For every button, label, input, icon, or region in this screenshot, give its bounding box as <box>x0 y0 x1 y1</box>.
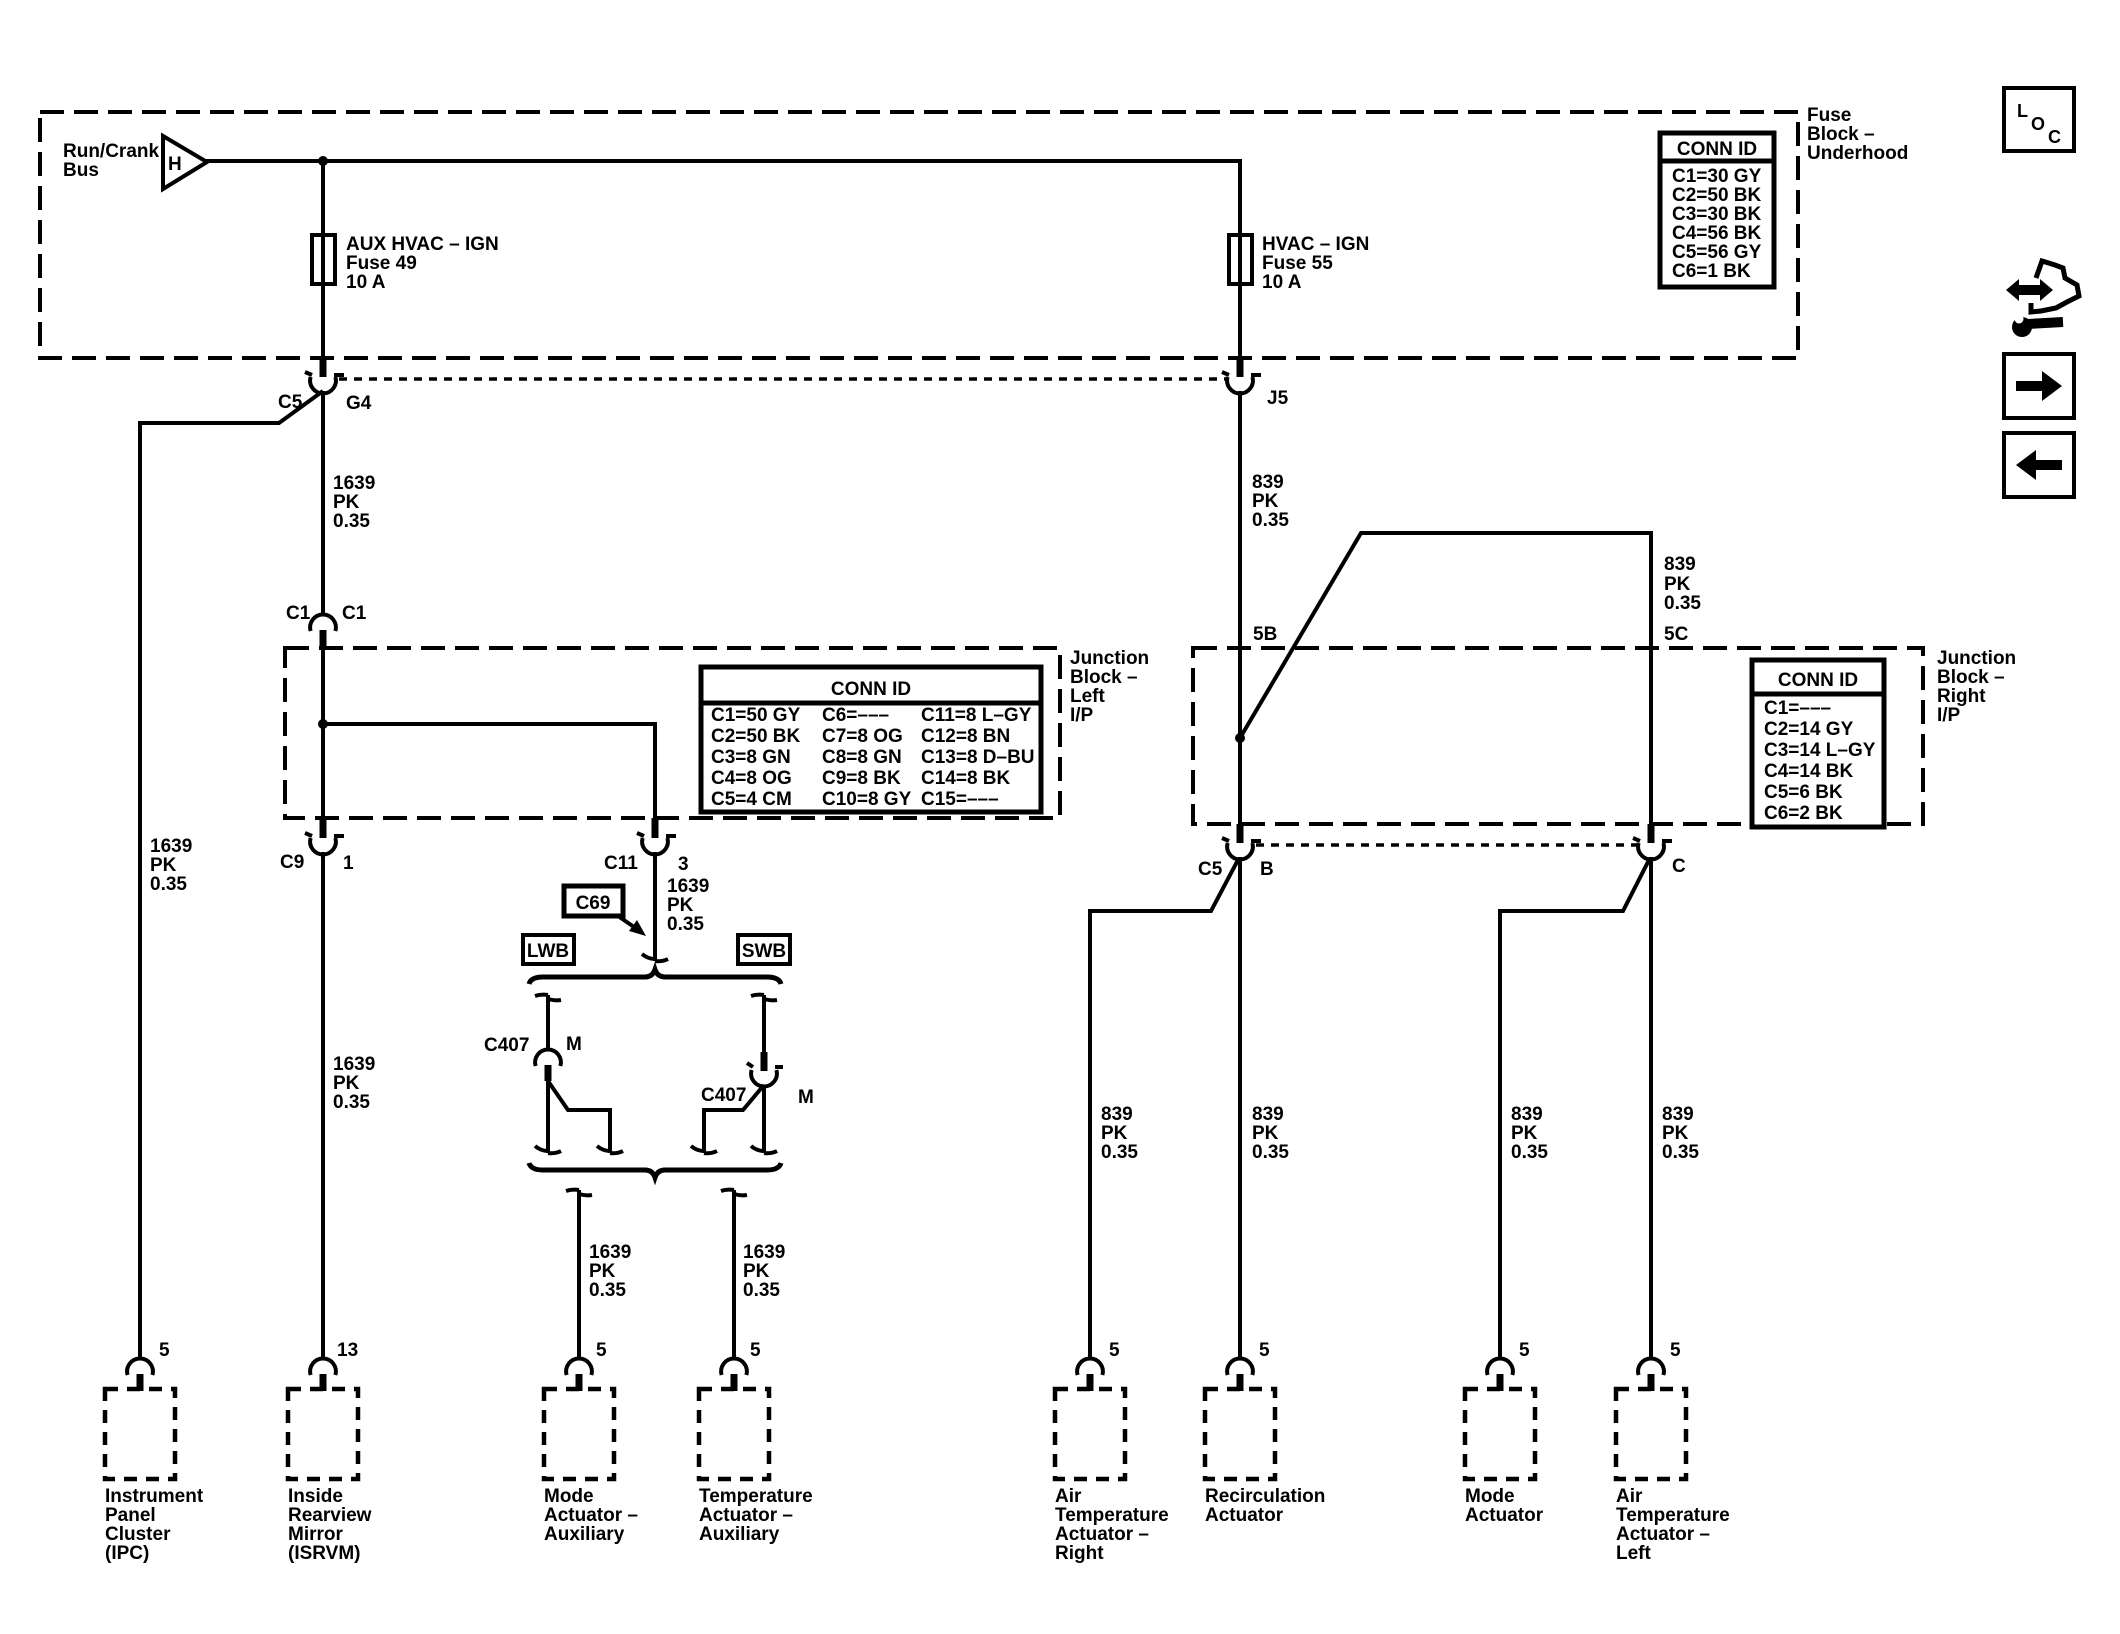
brace top (LWB/SWB split) <box>529 970 781 985</box>
wire end hooks above bottom brace (left pair) <box>535 1146 561 1153</box>
wire C5 to C1 <box>321 391 325 616</box>
inside rearview mirror ISRVM box <box>288 1340 372 1564</box>
svg-text:1639: 1639 <box>667 876 709 897</box>
svg-text:Mode: Mode <box>1465 1486 1515 1507</box>
svg-text:839: 839 <box>1511 1104 1543 1125</box>
temperature actuator auxiliary box <box>699 1340 813 1545</box>
svg-text:H: H <box>168 154 182 175</box>
svg-text:C6=1 BK: C6=1 BK <box>1672 261 1751 282</box>
svg-text:Recirculation: Recirculation <box>1205 1486 1325 1507</box>
svg-text:Bus: Bus <box>63 160 99 181</box>
junction block right label <box>1937 648 2016 726</box>
svg-text:C3=30 BK: C3=30 BK <box>1672 204 1762 225</box>
power trigger triangle H <box>163 136 207 189</box>
svg-text:C4=8 OG: C4=8 OG <box>711 768 792 789</box>
svg-text:PK: PK <box>333 1073 360 1094</box>
svg-text:Junction: Junction <box>1070 648 1149 669</box>
svg-text:839: 839 <box>1664 554 1696 575</box>
svg-text:C5=4 CM: C5=4 CM <box>711 789 792 810</box>
svg-text:C9: C9 <box>280 852 304 873</box>
svg-text:5: 5 <box>1519 1340 1530 1361</box>
svg-text:PK: PK <box>1252 491 1279 512</box>
svg-text:CONN ID: CONN ID <box>1677 139 1757 160</box>
svg-text:5: 5 <box>596 1340 607 1361</box>
wire end hook above brace <box>642 954 668 961</box>
wire label 1639 PK 0.35 (C11 wire) <box>667 876 709 935</box>
svg-text:0.35: 0.35 <box>589 1280 626 1301</box>
svg-text:C6=2 BK: C6=2 BK <box>1764 803 1843 824</box>
svg-text:C7=8 OG: C7=8 OG <box>822 726 903 747</box>
wire label 839 PK 0.35 (J5 wire) <box>1252 472 1289 531</box>
svg-text:10 A: 10 A <box>346 272 386 293</box>
branch wire to C11 <box>323 724 655 818</box>
svg-text:C5=56 GY: C5=56 GY <box>1672 242 1762 263</box>
branch wire B to air temperature actuator right <box>1090 858 1239 1359</box>
svg-text:Fuse 49: Fuse 49 <box>346 253 417 274</box>
svg-text:C4=14 BK: C4=14 BK <box>1764 761 1854 782</box>
svg-text:Actuator –: Actuator – <box>1055 1524 1149 1545</box>
svg-text:C: C <box>1672 856 1686 877</box>
svg-text:M: M <box>798 1087 814 1108</box>
svg-text:B: B <box>1260 859 1274 880</box>
wire label 1639 PK 0.35 (C9 wire) <box>333 1054 375 1113</box>
svg-text:C13=8 D–BU: C13=8 D–BU <box>921 747 1035 768</box>
dotted connector line below fuse block left <box>339 377 1227 381</box>
svg-text:Actuator: Actuator <box>1205 1505 1284 1526</box>
wire label 1639 PK 0.35 (mode aux) <box>589 1242 631 1301</box>
back arrow box <box>2004 433 2074 497</box>
connector C407 right <box>747 1052 783 1086</box>
svg-text:C15=–––: C15=––– <box>921 789 999 810</box>
wire label 1639 PK 0.35 (temp aux) <box>743 1242 785 1301</box>
svg-text:1639: 1639 <box>589 1242 631 1263</box>
svg-text:I/P: I/P <box>1070 705 1094 726</box>
svg-text:Temperature: Temperature <box>1055 1505 1169 1526</box>
connector C407 left <box>535 1050 561 1081</box>
service tool icon (arrow and wrench) <box>2006 261 2079 337</box>
connector C5/G4 <box>305 358 344 393</box>
svg-text:10 A: 10 A <box>1262 272 1302 293</box>
svg-text:C8=8 GN: C8=8 GN <box>822 747 902 768</box>
brace bottom <box>529 1163 781 1178</box>
air temperature actuator left box <box>1616 1340 1730 1564</box>
svg-text:O: O <box>2031 114 2045 134</box>
svg-text:PK: PK <box>667 895 694 916</box>
junction block left label <box>1070 648 1149 726</box>
junction node in junction block left <box>318 719 328 729</box>
svg-text:Left: Left <box>1070 686 1106 707</box>
svg-text:Actuator –: Actuator – <box>699 1505 793 1526</box>
wire label 1639 PK 0.35 (IPC wire) <box>150 836 192 895</box>
junction node at fuse 49 tap <box>318 156 328 166</box>
C69 callout box <box>564 886 623 916</box>
svg-text:Mirror: Mirror <box>288 1524 344 1545</box>
svg-text:1639: 1639 <box>333 1054 375 1075</box>
left C407 motor wires <box>546 1081 550 1153</box>
svg-text:1639: 1639 <box>743 1242 785 1263</box>
wire label 839 PK 0.35 (recirculation) <box>1252 1104 1289 1163</box>
SWB branch wire with top hook <box>751 995 777 1001</box>
svg-text:PK: PK <box>589 1261 616 1282</box>
C69 arrow <box>618 916 634 927</box>
svg-text:839: 839 <box>1662 1104 1694 1125</box>
junction block right dashed box <box>1193 648 1923 824</box>
CONN ID table fuse block <box>1660 133 1774 287</box>
wire label 839 PK 0.35 (air temp right) <box>1101 1104 1138 1163</box>
svg-text:0.35: 0.35 <box>667 914 704 935</box>
svg-text:0.35: 0.35 <box>1664 593 1701 614</box>
right C407 motor wires <box>762 1085 766 1153</box>
wire C11 down to splice brace <box>653 852 657 961</box>
branch wire C to mode actuator <box>1500 858 1650 1359</box>
LWB box <box>523 935 574 964</box>
svg-text:Junction: Junction <box>1937 648 2016 669</box>
svg-text:J5: J5 <box>1267 388 1289 409</box>
svg-text:M: M <box>566 1034 582 1055</box>
svg-text:1639: 1639 <box>333 473 375 494</box>
svg-text:PK: PK <box>1664 574 1691 595</box>
svg-text:Air: Air <box>1055 1486 1082 1507</box>
svg-text:C12=8 BN: C12=8 BN <box>921 726 1010 747</box>
svg-text:13: 13 <box>337 1340 358 1361</box>
svg-text:PK: PK <box>1511 1123 1538 1144</box>
wire label 1639 PK 0.35 (C5 to C1) <box>333 473 375 532</box>
svg-text:5C: 5C <box>1664 624 1689 645</box>
svg-text:C5=6 BK: C5=6 BK <box>1764 782 1843 803</box>
svg-text:C11=8 L–GY: C11=8 L–GY <box>921 705 1032 726</box>
svg-text:C407: C407 <box>484 1035 529 1056</box>
svg-text:CONN ID: CONN ID <box>831 679 911 700</box>
wire C to air temperature actuator left <box>1649 857 1653 1359</box>
svg-text:Rearview: Rearview <box>288 1505 372 1526</box>
svg-text:1639: 1639 <box>150 836 192 857</box>
svg-text:Cluster: Cluster <box>105 1524 171 1545</box>
svg-text:PK: PK <box>1662 1123 1689 1144</box>
Run/Crank bus wire <box>206 159 1240 163</box>
wire to temperature actuator aux with top hook <box>721 1190 747 1196</box>
svg-text:SWB: SWB <box>742 941 786 962</box>
connector C1 (into junction block left) <box>310 615 336 650</box>
svg-text:Underhood: Underhood <box>1807 143 1908 164</box>
Run/Crank Bus label <box>63 141 160 181</box>
svg-text:0.35: 0.35 <box>1662 1142 1699 1163</box>
svg-text:AUX HVAC – IGN: AUX HVAC – IGN <box>346 234 499 255</box>
fuse 55 <box>1229 235 1252 284</box>
svg-text:3: 3 <box>678 854 689 875</box>
svg-text:C1=–––: C1=––– <box>1764 698 1831 719</box>
svg-text:PK: PK <box>150 855 177 876</box>
svg-text:Panel: Panel <box>105 1505 156 1526</box>
svg-text:0.35: 0.35 <box>1101 1142 1138 1163</box>
svg-text:839: 839 <box>1252 1104 1284 1125</box>
svg-text:C5: C5 <box>1198 859 1223 880</box>
wire label 839 PK 0.35 (mode actuator) <box>1511 1104 1548 1163</box>
connector C11 pin 3 <box>637 818 676 854</box>
svg-text:5: 5 <box>1259 1340 1270 1361</box>
svg-text:Block –: Block – <box>1807 124 1875 145</box>
svg-text:839: 839 <box>1101 1104 1133 1125</box>
fuse 49 label <box>346 234 499 293</box>
svg-text:Left: Left <box>1616 1543 1652 1564</box>
CONN ID table junction block right <box>1752 660 1884 827</box>
wire J5 to junction block right <box>1238 391 1242 824</box>
fuse 55 label <box>1262 234 1369 293</box>
wire end hooks above bottom brace (right pair) <box>691 1146 717 1153</box>
svg-text:C10=8 GY: C10=8 GY <box>822 789 912 810</box>
junction block left dashed box <box>285 648 1060 818</box>
svg-text:0.35: 0.35 <box>1252 1142 1289 1163</box>
connector C9 pin 1 <box>305 818 344 854</box>
svg-text:5: 5 <box>1670 1340 1681 1361</box>
svg-text:0.35: 0.35 <box>333 511 370 532</box>
svg-text:C: C <box>2048 127 2061 147</box>
svg-text:C3=8 GN: C3=8 GN <box>711 747 791 768</box>
branch wire up-over to 5C <box>1240 533 1651 824</box>
svg-text:0.35: 0.35 <box>333 1092 370 1113</box>
svg-text:0.35: 0.35 <box>150 874 187 895</box>
svg-text:C9=8 BK: C9=8 BK <box>822 768 901 789</box>
svg-text:PK: PK <box>1101 1123 1128 1144</box>
svg-text:Mode: Mode <box>544 1486 594 1507</box>
wire fuse 49 to connector C5 <box>321 284 325 360</box>
dotted connector line below junction block right <box>1256 843 1637 847</box>
svg-text:C1=50 GY: C1=50 GY <box>711 705 801 726</box>
svg-text:C14=8 BK: C14=8 BK <box>921 768 1011 789</box>
svg-text:C11: C11 <box>604 853 638 874</box>
svg-text:5B: 5B <box>1253 624 1277 645</box>
svg-text:C69: C69 <box>576 893 611 914</box>
svg-text:C6=–––: C6=––– <box>822 705 889 726</box>
svg-text:Actuator –: Actuator – <box>1616 1524 1710 1545</box>
svg-text:LWB: LWB <box>527 941 569 962</box>
svg-text:CONN ID: CONN ID <box>1778 670 1858 691</box>
svg-text:C4=56 BK: C4=56 BK <box>1672 223 1762 244</box>
svg-text:Actuator –: Actuator – <box>544 1505 638 1526</box>
connector J5 <box>1222 358 1261 393</box>
svg-text:5: 5 <box>750 1340 761 1361</box>
svg-text:0.35: 0.35 <box>743 1280 780 1301</box>
svg-text:Right: Right <box>1055 1543 1104 1564</box>
svg-text:G4: G4 <box>346 393 372 414</box>
svg-text:Fuse 55: Fuse 55 <box>1262 253 1333 274</box>
wire label 839 PK 0.35 (air temp left) <box>1662 1104 1699 1163</box>
svg-text:5: 5 <box>1109 1340 1120 1361</box>
wire to mode actuator aux with top hook <box>566 1190 592 1196</box>
fuse block label <box>1807 105 1908 164</box>
instrument panel cluster IPC box <box>105 1340 204 1564</box>
svg-text:Actuator: Actuator <box>1465 1505 1544 1526</box>
svg-text:Auxiliary: Auxiliary <box>544 1524 625 1545</box>
svg-text:PK: PK <box>333 492 360 513</box>
svg-text:839: 839 <box>1252 472 1284 493</box>
svg-text:Inside: Inside <box>288 1486 343 1507</box>
fuse 49 <box>312 235 335 284</box>
svg-text:5: 5 <box>159 1340 170 1361</box>
svg-text:0.35: 0.35 <box>1511 1142 1548 1163</box>
fuse block underhood dashed box <box>40 112 1798 358</box>
wire bus corner to fuse 55 <box>1238 159 1242 235</box>
svg-text:Fuse: Fuse <box>1807 105 1851 126</box>
svg-text:I/P: I/P <box>1937 705 1961 726</box>
wire C5 branch to IPC (diagonal, horizontal, vertical) <box>140 391 323 1359</box>
LWB branch wire with top hook <box>535 995 561 1001</box>
wire C9 to ISRVM <box>321 852 325 1359</box>
connector B (C5) <box>1222 824 1261 859</box>
svg-text:C1: C1 <box>342 603 367 624</box>
svg-text:Temperature: Temperature <box>699 1486 813 1507</box>
svg-text:(ISRVM): (ISRVM) <box>288 1543 360 1564</box>
svg-text:HVAC – IGN: HVAC – IGN <box>1262 234 1369 255</box>
svg-text:1: 1 <box>343 853 354 874</box>
svg-text:Instrument: Instrument <box>105 1486 204 1507</box>
svg-text:Temperature: Temperature <box>1616 1505 1730 1526</box>
svg-text:L: L <box>2017 101 2028 121</box>
svg-text:Block –: Block – <box>1937 667 2005 688</box>
svg-text:PK: PK <box>743 1261 770 1282</box>
svg-text:PK: PK <box>1252 1123 1279 1144</box>
svg-text:C1=30 GY: C1=30 GY <box>1672 166 1762 187</box>
connector C <box>1633 824 1672 859</box>
svg-text:C2=50 BK: C2=50 BK <box>1672 185 1762 206</box>
SWB box <box>738 935 790 964</box>
svg-text:Auxiliary: Auxiliary <box>699 1524 780 1545</box>
svg-text:C3=14 L–GY: C3=14 L–GY <box>1764 740 1876 761</box>
air temperature actuator right box <box>1055 1340 1169 1564</box>
svg-text:Run/Crank: Run/Crank <box>63 141 160 162</box>
svg-text:(IPC): (IPC) <box>105 1543 149 1564</box>
svg-text:Block –: Block – <box>1070 667 1138 688</box>
wire label 839 PK 0.35 (5C wire) <box>1664 554 1701 614</box>
LOC legend box <box>2004 88 2074 151</box>
svg-text:0.35: 0.35 <box>1252 510 1289 531</box>
wire C1 through junction block <box>321 648 325 818</box>
recirculation actuator box <box>1205 1340 1325 1526</box>
svg-text:C407: C407 <box>701 1085 746 1106</box>
svg-text:Right: Right <box>1937 686 1986 707</box>
svg-text:Air: Air <box>1616 1486 1643 1507</box>
CONN ID table junction block left <box>701 667 1041 812</box>
mode actuator auxiliary box <box>544 1340 638 1545</box>
junction node right <box>1235 733 1245 743</box>
svg-text:C2=14 GY: C2=14 GY <box>1764 719 1854 740</box>
wire fuse 55 to connector J5 <box>1238 284 1242 360</box>
wire B to recirculation actuator <box>1238 857 1242 1359</box>
wire bus to fuse 49 <box>321 161 325 235</box>
mode actuator box <box>1465 1340 1544 1526</box>
svg-text:C1: C1 <box>286 603 311 624</box>
forward arrow box <box>2004 354 2074 418</box>
svg-text:C2=50 BK: C2=50 BK <box>711 726 801 747</box>
